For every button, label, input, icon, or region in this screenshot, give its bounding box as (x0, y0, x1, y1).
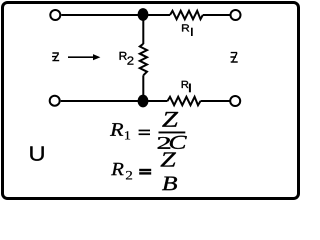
wire (top junction down to R2) (142, 15, 144, 45)
equation R1 denominator C (170, 136, 187, 149)
arrow (impedance direction) (68, 56, 94, 58)
label R1 (bottom resistor) (182, 81, 189, 88)
wire top rail (left port to R1) (61, 14, 170, 16)
equation R2 numerator Z (161, 152, 176, 166)
equation R1 denominator 2 (158, 137, 170, 149)
equation R1 numerator Z (162, 112, 178, 127)
label Z (output impedance, with stroke) (230, 53, 237, 62)
resistor R2 (vertical zigzag) (140, 44, 147, 76)
wire top rail (R1 to right port) (203, 14, 230, 16)
label U (figure label) (30, 146, 43, 160)
node (bottom junction dot) (138, 95, 149, 108)
terminal (bottom-right port circle) (230, 96, 240, 106)
resistor R1 (top, zigzag) (170, 11, 203, 19)
node (top junction dot) (138, 8, 149, 21)
label R2 subscript 2 (127, 57, 133, 65)
equation R1 subscript 1 (125, 131, 130, 139)
wire (R2 down to bottom junction) (142, 75, 144, 101)
equation R2 subscript 2 (126, 171, 132, 179)
equation R1 equals sign (139, 130, 150, 132)
resistor R1 (bottom, zigzag) (168, 97, 201, 105)
terminal (top-left port circle) (50, 10, 60, 20)
label R1 subscript 1 (top) (191, 28, 193, 36)
wire bottom rail (left port to R1) (61, 100, 168, 102)
label Z (input impedance, with stroke) (52, 53, 59, 61)
label R2 (120, 52, 127, 60)
equation R2 equals sign (bold) (139, 169, 151, 171)
label R1 subscript 1 (bottom) (189, 84, 191, 93)
equation R2 denominator B (162, 177, 177, 191)
equation R2 = Z/B : R (111, 163, 123, 175)
equation R1 fraction bar (159, 132, 186, 134)
label R1 (top resistor) (182, 24, 189, 31)
equation R1 = Z/2C : R (110, 123, 123, 135)
terminal (bottom-left port circle) (50, 96, 60, 106)
wire bottom rail (R1 to right port) (201, 100, 230, 102)
terminal (top-right port circle) (231, 10, 241, 20)
